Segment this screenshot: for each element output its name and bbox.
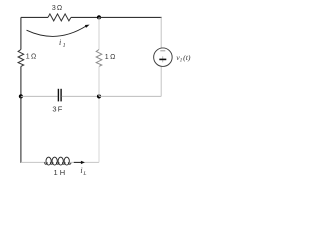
svg-text:i: i (80, 166, 82, 175)
svg-text:1Ω: 1Ω (105, 54, 116, 61)
current arrow iL (on bottom wire) (74, 161, 85, 164)
voltage source V1 circle (154, 48, 173, 66)
wire left branch to bottom-left corner (20, 96, 22, 162)
resistor R2 1ohm (left) (18, 50, 24, 67)
svg-text:1 H: 1 H (53, 168, 65, 177)
svg-text:3Ω: 3Ω (52, 5, 62, 12)
current label iL (80, 166, 86, 177)
resistor R1 3ohm (top) (48, 14, 71, 21)
current arrow i1 (curved) (27, 25, 90, 37)
wire node A to top-right corner (99, 16, 162, 18)
svg-text:3F: 3F (52, 105, 62, 114)
source minus mark (160, 50, 165, 52)
value label 1 H (53, 168, 65, 177)
wire middle branch lower lead (98, 66, 100, 96)
capacitor C1 3F (58, 89, 61, 102)
svg-text:L: L (82, 171, 86, 177)
node B junction dot (mid-left) (19, 94, 23, 98)
wire R1 to node A (71, 16, 99, 18)
wire mid-right corner up to source (160, 67, 162, 97)
wire inductor to bottom-right corner (70, 161, 100, 163)
wire capacitor to node C (62, 95, 99, 97)
wire bottom-left to inductor (21, 161, 46, 163)
value label 1 ohm (middle) (105, 54, 116, 61)
wire middle branch upper lead (98, 17, 100, 49)
value label 3 ohm (52, 5, 62, 12)
current label i1 (59, 38, 66, 49)
node C junction dot (mid) (97, 94, 101, 98)
source plus mark (159, 56, 166, 62)
node A junction dot (top) (97, 15, 101, 19)
value label 1 ohm (left) (26, 53, 37, 60)
wire bottom-right vertical (node C down) (98, 96, 100, 162)
wire top-right corner down to source (160, 17, 162, 48)
wire left branch lower (20, 66, 22, 96)
wire node C to mid-right corner (99, 95, 161, 97)
resistor R3 1ohm (middle) (96, 50, 102, 67)
svg-text:v1(t): v1(t) (176, 53, 191, 64)
value label 3 F (52, 105, 62, 114)
wire left branch upper (20, 17, 22, 49)
wire mid-left (node B to capacitor) (21, 95, 58, 97)
svg-text:i: i (59, 38, 61, 47)
svg-text:1: 1 (63, 43, 66, 49)
inductor L1 1H coil (45, 157, 71, 165)
wire top-left to R1 (21, 16, 48, 18)
svg-text:1Ω: 1Ω (26, 53, 37, 60)
source label v1(t) (176, 53, 191, 64)
